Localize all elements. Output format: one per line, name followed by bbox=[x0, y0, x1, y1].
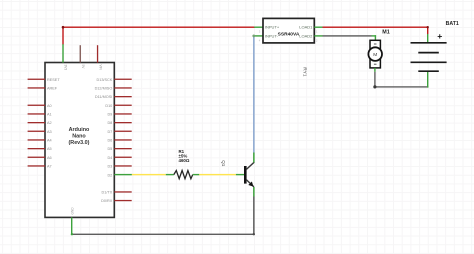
resistor R1 bbox=[174, 171, 193, 179]
svg-text:(Rev3.0): (Rev3.0) bbox=[69, 140, 90, 146]
pin D8 bbox=[107, 121, 131, 125]
svg-text:A3: A3 bbox=[47, 130, 52, 134]
svg-text:D12/MISO: D12/MISO bbox=[95, 87, 113, 91]
wire LOAD1 to BAT1 plus (red) bbox=[314, 26, 429, 43]
svg-text:Nano: Nano bbox=[72, 134, 86, 140]
pin D2 (connected green leg) bbox=[107, 173, 131, 177]
pin D4 bbox=[107, 156, 131, 160]
svg-text:1: 1 bbox=[316, 30, 318, 34]
svg-text:RY1: RY1 bbox=[301, 67, 307, 77]
svg-text:A2: A2 bbox=[47, 121, 52, 125]
pin D13/SCK bbox=[96, 78, 131, 82]
svg-text:A7: A7 bbox=[47, 165, 52, 169]
svg-text:SSR40VA: SSR40VA bbox=[278, 31, 300, 37]
pin A4 bbox=[28, 139, 52, 143]
pin D12/MISO bbox=[95, 87, 132, 91]
svg-text:D13/SCK: D13/SCK bbox=[96, 78, 112, 82]
wire M1 to BAT1 minus (gray) bbox=[373, 68, 428, 89]
svg-text:3: 3 bbox=[259, 30, 261, 34]
svg-text:D1/TX: D1/TX bbox=[102, 191, 113, 195]
svg-text:A5: A5 bbox=[47, 147, 52, 151]
svg-text:2: 2 bbox=[316, 38, 318, 42]
svg-text:LOAD2: LOAD2 bbox=[299, 33, 313, 38]
pin D11/MOSI bbox=[95, 95, 132, 99]
pin RESET bbox=[28, 78, 61, 82]
svg-text:M1: M1 bbox=[382, 29, 390, 35]
svg-text:AREF: AREF bbox=[47, 87, 58, 91]
svg-text:D9: D9 bbox=[107, 113, 112, 117]
wire Q1 emitter to GND (gray) bbox=[71, 187, 255, 235]
svg-text:INPUT+: INPUT+ bbox=[265, 25, 280, 30]
pin D3 bbox=[107, 165, 131, 169]
pin 3V3 (top, connected green leg) bbox=[62, 44, 67, 70]
svg-text:D7: D7 bbox=[107, 130, 112, 134]
wire D2 to R1 (yellow) bbox=[132, 174, 174, 175]
svg-text:GND: GND bbox=[71, 207, 75, 215]
svg-text:Arduino: Arduino bbox=[69, 127, 90, 133]
svg-text:+: + bbox=[437, 31, 442, 41]
pin D9 bbox=[107, 113, 131, 117]
wire 5V top pin to relay INPUT+ (red) bbox=[62, 26, 255, 45]
svg-text:INPUT-: INPUT- bbox=[265, 33, 279, 38]
motor M1 bbox=[368, 40, 382, 68]
svg-text:D2: D2 bbox=[107, 173, 112, 177]
svg-text:D10: D10 bbox=[105, 104, 112, 108]
svg-text:A1: A1 bbox=[47, 113, 52, 117]
svg-text:3V3: 3V3 bbox=[64, 65, 68, 71]
pin GND (bottom, connected green leg) bbox=[71, 207, 75, 235]
svg-text:D11/MOSI: D11/MOSI bbox=[95, 95, 112, 99]
transistor Q1 bbox=[244, 162, 254, 187]
pin A5 bbox=[28, 147, 52, 151]
svg-text:D4: D4 bbox=[107, 156, 112, 160]
svg-text:D8: D8 bbox=[107, 121, 112, 125]
svg-text:M: M bbox=[373, 52, 377, 58]
pin AREF bbox=[28, 87, 58, 91]
pin D10 bbox=[105, 104, 131, 108]
svg-text:D6: D6 bbox=[107, 139, 112, 143]
pin D0/RX bbox=[101, 199, 132, 203]
svg-text:D3: D3 bbox=[107, 165, 112, 169]
svg-text:A4: A4 bbox=[47, 139, 52, 143]
wire relay INPUT- leg (green) bbox=[252, 35, 263, 38]
pin D7 bbox=[107, 130, 131, 134]
pin D6 bbox=[107, 139, 131, 143]
battery BAT1 bbox=[411, 31, 447, 71]
pin 5V (top) bbox=[80, 45, 85, 69]
pin A0 bbox=[28, 104, 52, 108]
svg-text:D5: D5 bbox=[107, 147, 112, 151]
svg-text:A0: A0 bbox=[47, 104, 52, 108]
svg-text:Q1: Q1 bbox=[221, 160, 226, 167]
wire R1 to Q1 base (yellow) bbox=[193, 174, 245, 175]
wire relay INPUT+ leg (green) bbox=[254, 27, 263, 28]
pin VIN (top) bbox=[97, 45, 102, 70]
svg-text:LOAD1: LOAD1 bbox=[299, 25, 313, 30]
pin A1 bbox=[28, 113, 52, 117]
pin A2 bbox=[28, 121, 52, 125]
svg-text:4: 4 bbox=[259, 38, 261, 42]
wire Q1 collector to relay INPUT- (blue) bbox=[253, 37, 255, 163]
pin A7 bbox=[28, 165, 52, 169]
svg-text:D0/RX: D0/RX bbox=[101, 199, 113, 203]
arduino U1 body bbox=[45, 63, 114, 218]
pin D1/TX bbox=[102, 191, 132, 195]
svg-text:A6: A6 bbox=[47, 156, 52, 160]
label R1 value bbox=[179, 149, 190, 163]
pin A6 bbox=[28, 156, 52, 160]
relay RY1 body bbox=[263, 18, 314, 43]
pin A3 bbox=[28, 130, 52, 134]
pin D5 bbox=[107, 147, 131, 151]
svg-text:BAT1: BAT1 bbox=[446, 21, 459, 27]
svg-text:VIN: VIN bbox=[98, 65, 102, 71]
wire LOAD2 to M1 (gray) bbox=[314, 35, 376, 40]
svg-text:460Ω: 460Ω bbox=[179, 158, 190, 163]
svg-text:RESET: RESET bbox=[47, 78, 60, 82]
